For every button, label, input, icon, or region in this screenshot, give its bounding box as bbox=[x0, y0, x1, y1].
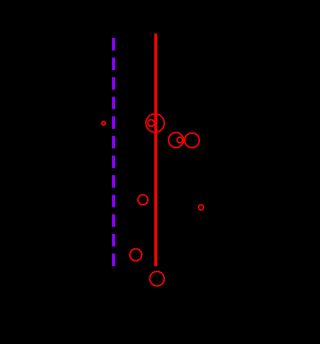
circle marker I bbox=[130, 249, 142, 261]
circle marker G bbox=[138, 195, 148, 205]
small circle marker C bbox=[148, 120, 155, 127]
red vertical line bbox=[154, 34, 157, 267]
small circle marker A bbox=[102, 122, 106, 126]
large circle marker F bbox=[185, 133, 200, 148]
small circle marker H bbox=[198, 205, 203, 210]
large circle marker B on red line bbox=[146, 114, 164, 132]
purple dashed vertical line bbox=[112, 38, 115, 267]
large circle marker D bbox=[169, 133, 184, 148]
small circle marker E bbox=[177, 137, 183, 143]
circle marker J at bottom of red line bbox=[150, 272, 164, 286]
